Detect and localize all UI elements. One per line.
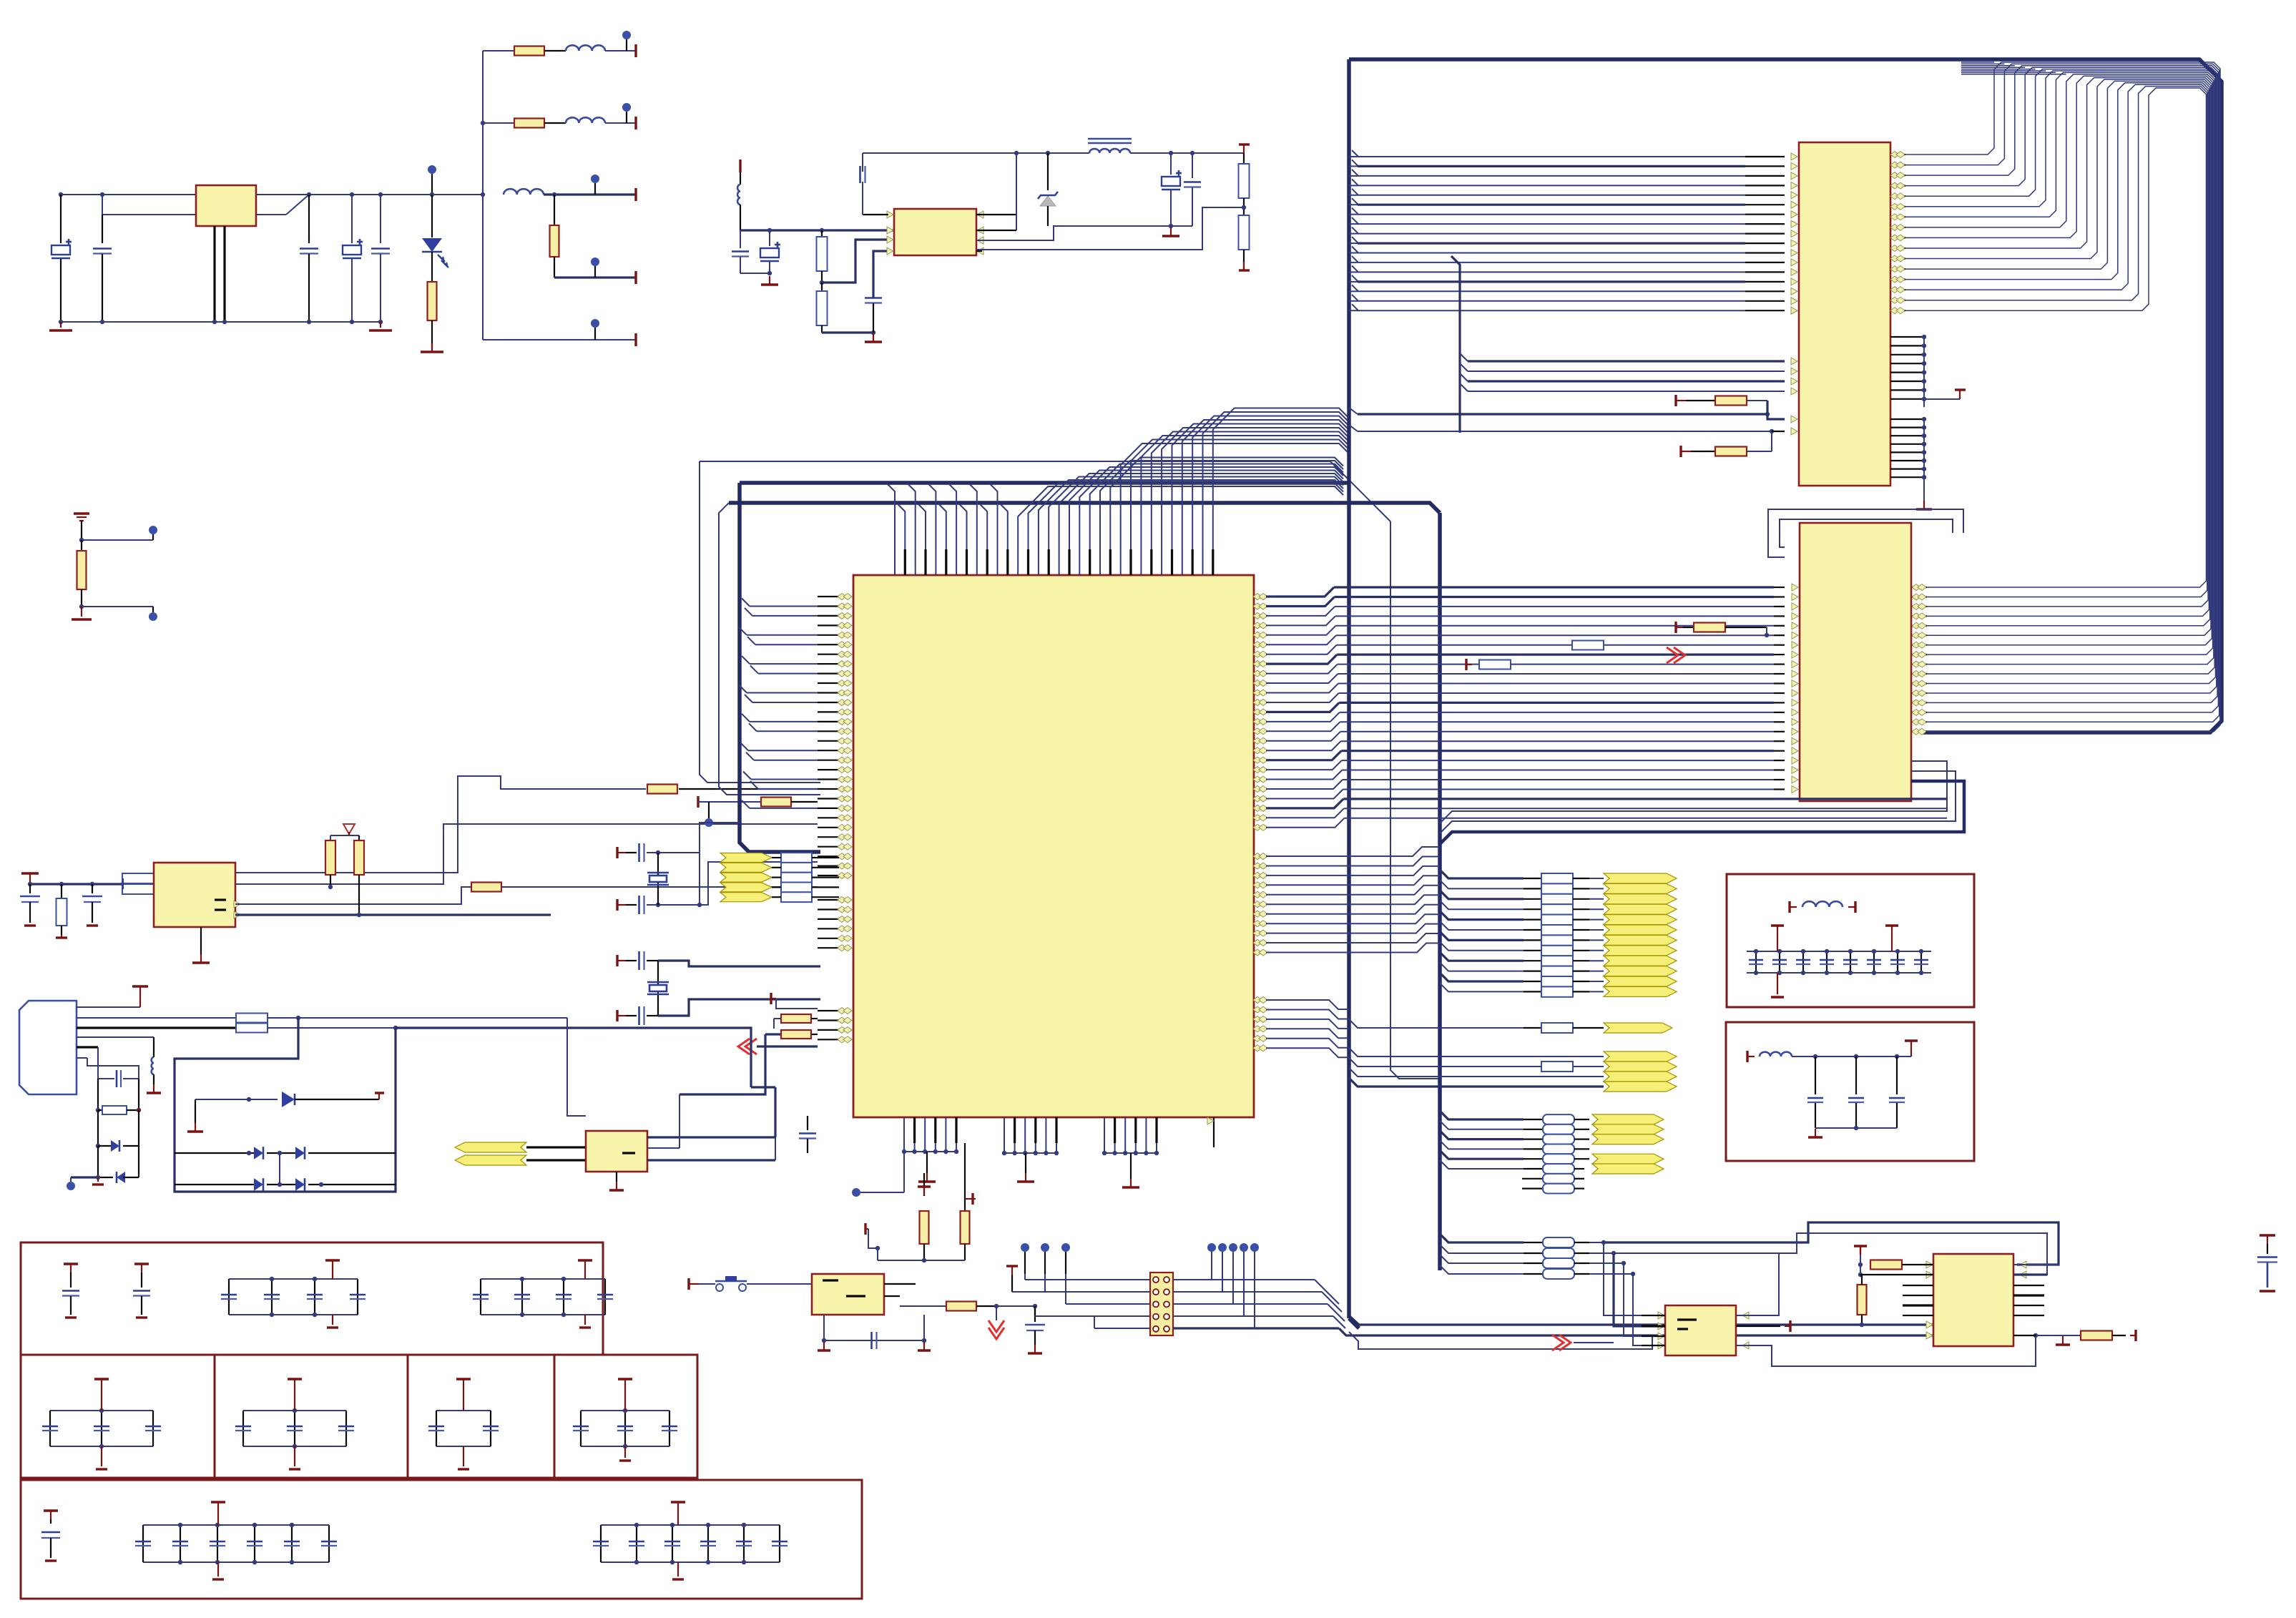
rounded resistor column 2 — [1440, 1111, 1589, 1194]
resistor R5 — [821, 230, 823, 237]
wire tp2 — [79, 604, 84, 609]
resistor R13 — [647, 785, 677, 794]
net arrows group4 — [1604, 1051, 1677, 1061]
inductor L8 — [1746, 1051, 1748, 1062]
resistor R28 — [1858, 1262, 1863, 1267]
diode D4 — [97, 1146, 99, 1177]
capacitor C12 — [29, 884, 31, 893]
decoupling box row2 d — [554, 1355, 697, 1478]
wire divider — [1243, 153, 1245, 164]
main IC right pins — [1253, 594, 1267, 1051]
test point — [622, 31, 631, 39]
wire to ground — [822, 331, 873, 333]
wire U10 bottom right — [2033, 1333, 2038, 1338]
pin terminal — [1239, 269, 1250, 271]
decoupling box row2 c — [408, 1355, 554, 1478]
wire thick u7 — [1358, 413, 1767, 415]
U7 right pin arrows — [1890, 152, 1905, 314]
U7 left pin wires from bus — [1349, 150, 1785, 310]
resistor R17 — [923, 1173, 925, 1196]
main IC left pins — [818, 594, 852, 1043]
test points right of header — [1207, 1243, 1216, 1252]
IC U3 oscillator — [154, 863, 235, 927]
ground — [1923, 501, 1925, 509]
power flag — [1736, 1325, 1780, 1327]
top hug wires — [1961, 62, 2066, 74]
diode D2 catch zener — [1047, 153, 1049, 190]
net arrows CAN — [455, 1142, 526, 1152]
inductor L7 — [1788, 901, 1790, 913]
net arrow single — [1604, 1023, 1672, 1033]
diode D3 — [97, 1110, 99, 1146]
power flag — [132, 985, 148, 987]
wire output gnd rail — [976, 226, 1192, 240]
resistor R26 — [1679, 446, 1682, 457]
wire bundle above main IC going right lower — [1018, 458, 1343, 550]
IC U7 SDRAM upper — [1799, 142, 1890, 486]
decoupling box row1 — [21, 1242, 603, 1355]
resistor R8 — [1239, 215, 1250, 250]
test point — [67, 1182, 75, 1190]
IC U5 reset supervisor — [812, 1274, 884, 1315]
regulator U1 — [196, 185, 256, 226]
filter box 1 — [1727, 874, 1974, 1007]
U10 plain pins — [1903, 1285, 1933, 1286]
wire thin vertical mid — [1339, 470, 1390, 521]
resistor R12 into osc — [122, 884, 154, 894]
pin terminal — [634, 188, 637, 201]
U10 left connections — [1926, 1261, 1933, 1268]
wire osc out2 — [235, 824, 818, 884]
ground — [1034, 1345, 1036, 1353]
capacitor C1 electrolytic input — [60, 195, 62, 243]
cap group 2 — [481, 1278, 605, 1280]
test point — [622, 103, 631, 112]
wire trunk vertical — [432, 194, 483, 195]
power flag — [21, 872, 39, 874]
red chevron right — [1674, 647, 1685, 663]
bus thick outline — [1349, 59, 2222, 732]
crystal Y2 — [657, 961, 659, 1016]
U7 left pin arrows — [1791, 153, 1797, 314]
wire feedback tap — [820, 280, 824, 285]
caps filter2 — [1815, 1056, 1816, 1094]
pin terminal — [634, 333, 637, 346]
capacitor C11 out — [1192, 153, 1193, 178]
test point — [591, 319, 599, 328]
test point — [591, 175, 599, 183]
wire vcc rail — [29, 882, 31, 884]
test point — [591, 258, 599, 266]
ground — [926, 1173, 928, 1182]
IC U10 ethernet PHY — [1933, 1254, 2013, 1346]
wire bundle above main IC joining thick bus — [887, 484, 1008, 549]
resistor R30 — [2063, 1335, 2081, 1336]
capacitor C7 electrolytic — [769, 230, 770, 246]
wire thick to ethernet — [1339, 1328, 1933, 1335]
wire crystal to IC — [700, 862, 818, 905]
inductor L1 — [566, 45, 605, 51]
wire bevels into bus — [1315, 1280, 1339, 1304]
test points row — [1021, 1243, 1029, 1252]
wire long return — [680, 1034, 765, 1094]
resistor R9 — [81, 540, 82, 551]
capacitor C4 electrolytic output — [350, 192, 354, 197]
wire crystal2 to IC — [658, 961, 820, 966]
diode bridge D6-D9 — [175, 1152, 255, 1154]
resistor R6 — [821, 283, 823, 291]
cap group 5 — [436, 1410, 491, 1411]
resistor R28b inline — [1572, 641, 1604, 650]
resistor R18 — [964, 1143, 966, 1211]
capacitor C17 — [807, 1116, 808, 1130]
wire — [877, 1248, 878, 1260]
crystal block 2 — [616, 955, 618, 966]
resistor R14 — [471, 883, 501, 892]
test point TP1 — [428, 165, 436, 174]
ground — [87, 924, 98, 926]
ground — [1130, 1179, 1132, 1187]
wires header to bus bend — [1173, 1279, 1315, 1280]
IC U6 CAN transceiver — [586, 1131, 647, 1172]
wire bridge loop — [175, 1018, 396, 1192]
net arrows array 1 — [1604, 873, 1677, 996]
resistor R23 — [236, 1024, 268, 1033]
ferrite branch 2 — [483, 122, 514, 124]
ground — [24, 924, 36, 926]
wire bundle left pins — [739, 599, 818, 808]
test point — [705, 818, 713, 827]
wire bus thick C — [740, 483, 820, 852]
power flag — [1006, 1265, 1018, 1267]
capacitor C9 bootstrap — [863, 214, 888, 215]
wire input rail — [740, 229, 894, 231]
resistor R29 — [1858, 1285, 1867, 1315]
ground — [1815, 1129, 1816, 1137]
capacitor C6 — [740, 230, 741, 248]
net label arrows x5 — [720, 853, 772, 863]
IC U9 ethernet magnetics — [1665, 1305, 1736, 1355]
bus B fanout to resistor array 1 — [1440, 870, 1604, 997]
ground — [2062, 1336, 2064, 1345]
capacitor C14 — [870, 1332, 873, 1349]
ground — [823, 1342, 825, 1350]
capacitor C15 — [1034, 1306, 1036, 1322]
wire eth col to IC A — [1604, 1242, 1642, 1315]
resistor R29b inline — [1465, 659, 1467, 670]
ground — [56, 936, 67, 938]
pin terminal input — [739, 160, 741, 172]
wire thick wrap below — [1440, 781, 1964, 844]
ground — [97, 1177, 99, 1182]
wires into header — [1012, 1291, 1150, 1293]
header J1 2x5 — [1150, 1273, 1173, 1335]
U7 right collector upper — [1890, 336, 1924, 338]
wire switch node — [976, 214, 1016, 215]
power flag — [1239, 143, 1250, 145]
capacitor C21 standalone right — [2260, 1234, 2275, 1236]
wire feedback to fb pin — [976, 250, 982, 252]
wire gnd cluster 3 — [1104, 1143, 1105, 1153]
ground — [153, 1084, 154, 1093]
wire reset out — [884, 1295, 900, 1297]
capacitor C16 — [98, 1078, 114, 1079]
LED D1 — [430, 192, 434, 197]
capacitor C2 input — [102, 215, 103, 243]
ground LED — [421, 350, 443, 353]
wire nested bus rect 1 — [1604, 1222, 2059, 1265]
wire CAN up — [751, 1086, 775, 1088]
U10 right pins — [2020, 1261, 2026, 1268]
ground — [1170, 227, 1172, 236]
inductor L6 — [153, 1037, 154, 1057]
ethernet resistor column — [1440, 1234, 1589, 1279]
power flag — [375, 1092, 384, 1094]
connector J2 — [19, 1001, 77, 1094]
wire thick top 700 — [729, 503, 1440, 513]
ground — [195, 1099, 196, 1123]
cap group 3 — [50, 1410, 153, 1411]
earth ground symbol — [74, 512, 89, 514]
wire osc out3 — [235, 887, 471, 904]
resistor array 5 — [781, 853, 812, 863]
ground — [81, 607, 82, 617]
cap group 7 — [143, 1524, 329, 1526]
wire CAN ic — [396, 1028, 751, 1087]
wires CAN right — [647, 1136, 775, 1138]
wire bottom branch — [483, 339, 636, 340]
ground GND left — [378, 320, 383, 324]
resistor R25 — [1674, 395, 1677, 406]
capacitor C5 output — [378, 192, 383, 197]
pin arrows U2 — [887, 211, 893, 218]
U8 right pin arrows — [1912, 584, 1926, 735]
single resistor row — [1349, 1019, 1524, 1028]
inductor L3 main — [504, 189, 544, 195]
pin terminal — [634, 271, 637, 284]
ground GND right — [60, 322, 62, 328]
decoupling box row3 — [21, 1480, 862, 1599]
crystal block 1 — [616, 847, 618, 858]
zener D5 TVS — [195, 1099, 278, 1100]
cap bank 8 — [1755, 951, 1757, 973]
cap group 6 — [581, 1410, 669, 1411]
wire ground rail — [61, 321, 381, 323]
capacitor C18 — [64, 1262, 78, 1265]
resistor R13b — [761, 798, 791, 807]
ground — [616, 1172, 617, 1182]
red chevron flag down — [988, 1328, 1004, 1339]
decoupling box row2 b — [215, 1355, 408, 1478]
capacitor C13 — [92, 884, 93, 893]
capacitor C19 — [134, 1262, 149, 1265]
crystal Y1 — [657, 853, 659, 905]
U8 wrap below (to bus B) — [1440, 761, 1947, 823]
ground — [1025, 1173, 1026, 1182]
pin terminal — [634, 44, 637, 57]
wire to ethernet magnetics — [1349, 1332, 1652, 1349]
wire input rail — [61, 194, 196, 195]
power flags filter1 — [1771, 924, 1784, 926]
regulator ground pins — [213, 226, 215, 322]
resistor R20 — [774, 1018, 781, 1019]
cap bank rails — [1747, 951, 1931, 952]
resistor R21 — [765, 1033, 781, 1035]
resistor R7 — [1239, 164, 1250, 198]
test point — [852, 1188, 860, 1197]
resistor R24 — [96, 1108, 100, 1112]
U7 right pin wrap bundle — [1890, 62, 2220, 732]
wire regulator output — [256, 194, 432, 195]
cap group 4 — [243, 1410, 346, 1411]
wire bus vertical A — [700, 461, 820, 783]
decoupling box row2 a — [21, 1355, 215, 1478]
wire feedback return — [976, 207, 1244, 250]
IC U2 buck converter — [894, 209, 976, 255]
filter box 2 — [1726, 1022, 1974, 1161]
red chevron flag left — [738, 1039, 750, 1054]
wire gnd cluster 1 — [903, 1143, 905, 1152]
power flag small2 — [697, 796, 699, 808]
resistor R11 into osc — [122, 873, 154, 883]
resistor R27 pullup near bus — [1674, 622, 1677, 633]
ground — [873, 333, 874, 342]
resistor R3 — [514, 119, 544, 128]
connector pin wires — [77, 1006, 140, 1008]
IC U4 main processor — [853, 575, 1254, 1117]
resistor R1 LED — [431, 252, 433, 282]
U7 right collector lower — [1890, 418, 1924, 420]
wire nested bus rect 2 — [1614, 1233, 2047, 1275]
resistor R10 — [61, 884, 62, 898]
main IC top pin stubs — [895, 549, 1213, 575]
resistor R16 pullup — [358, 835, 360, 840]
U8 left pin arrows — [1792, 584, 1798, 793]
power flag small — [770, 993, 772, 1004]
wire thin top A — [700, 461, 1339, 470]
net flag triangle — [343, 824, 355, 834]
wire thick top 675 — [740, 481, 1349, 485]
wire bundle main IC to SDRAM2 — [1266, 587, 1947, 828]
wire switch node top rail — [863, 152, 1089, 154]
main IC bottom pin stubs — [904, 1117, 1214, 1147]
capacitor C8 — [865, 297, 882, 299]
wire tp — [79, 538, 84, 542]
reset button SW1 — [687, 1278, 690, 1290]
wire osc out1 — [235, 776, 646, 873]
U7 lower left pins — [1460, 353, 1468, 361]
net arrows col2 — [1592, 1114, 1664, 1124]
wire stub vertical x2041 — [1451, 256, 1460, 433]
wire gnd cluster 2 — [1004, 1143, 1005, 1153]
resistor R4 vertical — [554, 195, 555, 225]
group of four rows — [1349, 1048, 1604, 1056]
wire bundle main IC lower right to bus B — [1266, 847, 1440, 953]
resistor R19 — [900, 1305, 946, 1307]
ground — [767, 271, 772, 275]
wire to pin — [554, 276, 636, 278]
bus B vertical — [1438, 513, 1442, 1270]
pin terminal — [634, 117, 637, 129]
wire bundle above main IC going right upper — [1121, 408, 1348, 550]
pullup resistors below IC — [864, 1223, 866, 1235]
inductor L2 — [566, 117, 605, 123]
wire osc out4 — [235, 913, 551, 916]
capacitor C20 — [44, 1509, 58, 1511]
test point TP — [149, 612, 157, 621]
cap group 8 — [601, 1524, 780, 1526]
capacitor C10 electrolytic out — [1170, 153, 1172, 175]
cap group 1 — [229, 1278, 358, 1280]
bus A lower bend — [1349, 1318, 1359, 1328]
red chevron input — [1559, 1335, 1571, 1350]
wire cap loop — [824, 1315, 924, 1340]
U8 wrap above — [1768, 509, 1963, 557]
test point TP — [149, 526, 157, 534]
IC U8 SDRAM lower — [1800, 523, 1911, 801]
resistor R2 — [514, 46, 544, 56]
wires U9 right — [1742, 1312, 1749, 1319]
power flag — [1905, 1039, 1918, 1041]
wire bus vertical B — [719, 503, 820, 795]
pin arrows — [234, 901, 240, 908]
wire lower right extra — [1266, 1000, 1349, 1057]
inductor L4 input choke — [740, 172, 741, 185]
wire comp — [873, 251, 888, 298]
resistor R22 — [236, 1014, 268, 1023]
power flag — [1955, 388, 1966, 391]
resistor R15 pullup — [330, 835, 331, 840]
inductor L5 output — [1088, 138, 1132, 140]
ground pin — [200, 927, 202, 954]
ferrite branch 1 — [483, 50, 514, 52]
capacitor C3 output — [307, 192, 311, 197]
